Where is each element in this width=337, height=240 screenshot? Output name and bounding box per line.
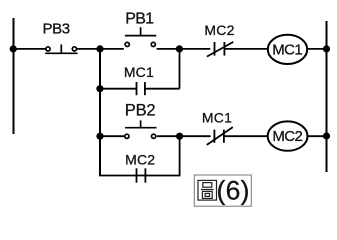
wire row4: bottom branch horizontal: [99, 175, 181, 177]
wire row1: left rail to PB3: [13, 48, 46, 50]
wire row2: node C to MC1 contact: [100, 88, 137, 90]
node on right rail row1 junction dot: [323, 45, 330, 52]
wire row3: coil MC2 to right rail: [308, 135, 327, 137]
svg-text:MC2: MC2: [125, 151, 155, 167]
wire row1: PB3 to node A: [77, 48, 100, 50]
left power rail: [13, 18, 15, 134]
svg-text:MC2: MC2: [272, 128, 302, 145]
node E junction dot: [176, 133, 183, 140]
caption glyph 圖 (drawn): [198, 180, 217, 200]
wire row1: coil MC1 to right rail: [307, 48, 326, 50]
wire: row3 drop to row4 (right side): [179, 136, 181, 175]
svg-text:PB3: PB3: [43, 20, 70, 37]
wire row1: node B to MC2 contact: [180, 48, 211, 50]
node B junction dot: [176, 45, 183, 52]
wire row3: MC1 contact to coil MC2: [224, 135, 268, 137]
svg-text:PB1: PB1: [125, 11, 154, 28]
pushbutton PB2 (normally open): [125, 120, 157, 138]
coil MC1: [268, 35, 307, 64]
svg-text:MC1: MC1: [124, 64, 154, 80]
wire row3: node E to MC1 contact: [180, 135, 211, 137]
node A junction dot: [96, 45, 103, 52]
pushbutton PB3 (normally closed): [45, 45, 77, 54]
svg-text:MC1: MC1: [272, 42, 302, 59]
wire: row2 riser up to node B: [179, 49, 181, 89]
pushbutton PB1 (normally open): [125, 27, 156, 46]
wire row1: node A to PB1: [100, 48, 124, 50]
right power rail: [326, 21, 328, 172]
contact MC1 (normally closed, row3): [207, 127, 233, 145]
node on left rail junction dot: [10, 45, 17, 52]
wire: middle vertical bus (node A down to row4): [99, 49, 101, 176]
coil MC2: [268, 121, 308, 150]
contact MC1 (normally open, row2 seal-in): [137, 82, 145, 95]
contact MC2 (normally open, row4 seal-in): [137, 168, 146, 182]
svg-text:PB2: PB2: [125, 101, 156, 119]
wire row1: PB1 to node B: [157, 48, 180, 50]
wire row1: MC2 contact to coil MC1: [224, 48, 268, 50]
wire row3: node D to PB2: [100, 135, 124, 137]
figure caption box: [194, 175, 251, 206]
svg-text:(6): (6): [217, 175, 250, 205]
svg-text:MC2: MC2: [204, 22, 234, 38]
node C junction dot: [96, 85, 103, 92]
contact MC2 (normally closed, row1): [207, 42, 233, 57]
wire row2: MC1 contact to corner: [145, 88, 180, 90]
node D junction dot: [96, 133, 103, 140]
wire row3: PB2 to node E: [157, 135, 180, 137]
node on right rail row3 junction dot: [323, 132, 330, 139]
svg-text:MC1: MC1: [202, 110, 232, 126]
